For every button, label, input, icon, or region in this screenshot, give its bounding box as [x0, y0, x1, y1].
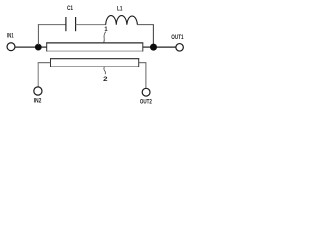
resonator strip line 2	[50, 58, 139, 67]
node A junction dot	[35, 44, 42, 51]
svg-text:IN2: IN2	[34, 97, 42, 104]
inductor L1	[106, 16, 138, 25]
wire down to IN2	[37, 63, 39, 87]
terminal OUT2	[142, 88, 150, 96]
wire node A up to shunt branch	[37, 24, 39, 45]
svg-text:L1: L1	[117, 6, 123, 13]
svg-text:OUT2: OUT2	[140, 98, 152, 105]
svg-text:C1: C1	[67, 5, 73, 12]
wire branch to C1	[38, 24, 66, 26]
svg-text:OUT1: OUT1	[171, 34, 184, 41]
leader line to 1	[104, 32, 106, 43]
svg-text:1: 1	[104, 26, 108, 33]
capacitor C1	[66, 17, 76, 31]
wire IN1 to node A	[15, 46, 36, 48]
node B junction dot	[150, 44, 157, 51]
terminal OUT1	[176, 44, 184, 52]
wire node A to resonator 1	[41, 46, 47, 48]
wire C1 to L1	[76, 24, 106, 26]
resonator strip line 1	[46, 43, 143, 52]
svg-text:IN1: IN1	[7, 32, 14, 39]
terminal IN2	[34, 87, 42, 95]
wire L1 to corner	[137, 24, 154, 26]
wire down to OUT2	[145, 63, 147, 89]
wire resonator 2 right to OUT2 corner	[139, 62, 147, 64]
terminal IN1	[7, 43, 15, 51]
wire resonator 1 to node B	[143, 46, 151, 48]
leader line to 2	[104, 67, 105, 74]
wire resonator 2 left to IN2 corner	[38, 62, 51, 64]
svg-text:2: 2	[103, 76, 108, 83]
wire node B to OUT1	[156, 46, 176, 48]
wire corner down to node B	[152, 25, 154, 45]
